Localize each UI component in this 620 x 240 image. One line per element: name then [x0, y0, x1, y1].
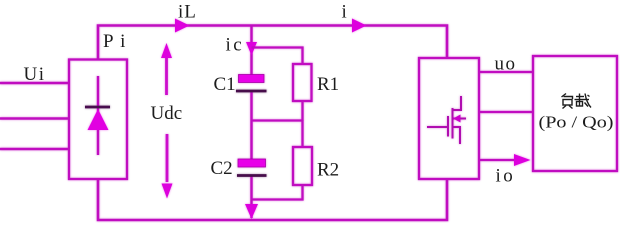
svg-text:Udc: Udc: [151, 103, 183, 124]
label 负载 (load) drawn strokes: [562, 94, 592, 109]
svg-text:R2: R2: [317, 160, 339, 181]
svg-text:ic: ic: [226, 35, 245, 56]
svg-text:i: i: [342, 2, 347, 23]
svg-text:C2: C2: [211, 158, 233, 179]
svg-text:C1: C1: [214, 74, 236, 95]
负: [562, 94, 567, 98]
label (Po / Qo): [539, 113, 614, 132]
svg-text:io: io: [496, 166, 516, 187]
载: [576, 96, 584, 98]
svg-text:iL: iL: [178, 2, 197, 23]
svg-text:Ui: Ui: [24, 64, 46, 85]
svg-text:uo: uo: [495, 54, 517, 75]
svg-text:(Po / Qo): (Po / Qo): [539, 113, 614, 132]
svg-text:R1: R1: [317, 74, 339, 95]
svg-text:Pi: Pi: [103, 31, 132, 52]
